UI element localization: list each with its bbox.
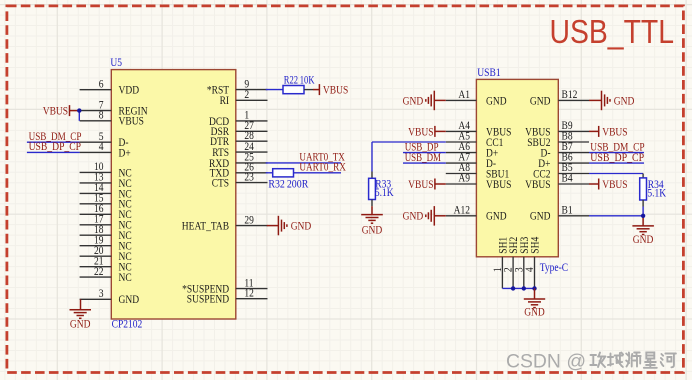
- svg-text:GND: GND: [614, 94, 635, 107]
- svg-text:VBUS: VBUS: [525, 178, 550, 191]
- svg-text:R22 10K: R22 10K: [284, 74, 315, 87]
- svg-text:VBUS: VBUS: [486, 178, 511, 191]
- svg-text:GND: GND: [291, 220, 312, 233]
- svg-text:GND: GND: [530, 210, 551, 223]
- svg-text:CTS: CTS: [212, 177, 229, 190]
- svg-text:6: 6: [99, 77, 104, 90]
- svg-text:SUSPEND: SUSPEND: [187, 293, 229, 306]
- svg-text:4: 4: [99, 140, 104, 153]
- svg-text:GND: GND: [486, 94, 507, 107]
- svg-text:USB_DP_CP: USB_DP_CP: [29, 140, 81, 153]
- svg-text:VBUS: VBUS: [323, 84, 348, 97]
- svg-text:12: 12: [244, 286, 254, 299]
- svg-text:VBUS: VBUS: [602, 178, 627, 191]
- svg-text:4: 4: [523, 267, 536, 272]
- svg-text:GND: GND: [486, 210, 507, 223]
- svg-text:GND: GND: [70, 317, 91, 330]
- svg-text:USB_TTL: USB_TTL: [550, 13, 675, 50]
- svg-text:GND: GND: [403, 210, 424, 223]
- svg-text:NC: NC: [119, 271, 132, 284]
- svg-text:A12: A12: [454, 203, 471, 216]
- svg-text:USB1: USB1: [477, 66, 500, 79]
- svg-text:8: 8: [99, 109, 104, 122]
- svg-text:GND: GND: [524, 306, 545, 319]
- svg-text:B12: B12: [562, 88, 578, 101]
- svg-text:U5: U5: [110, 56, 122, 69]
- svg-text:RI: RI: [220, 94, 230, 107]
- svg-text:SH4: SH4: [529, 237, 542, 254]
- svg-text:D+: D+: [119, 146, 131, 159]
- svg-text:5.1K: 5.1K: [375, 186, 394, 199]
- svg-text:GND: GND: [530, 94, 551, 107]
- svg-text:A1: A1: [458, 88, 470, 101]
- svg-text:GND: GND: [119, 293, 140, 306]
- svg-text:CP2102: CP2102: [112, 317, 143, 330]
- svg-text:GND: GND: [362, 224, 383, 237]
- svg-text:GND: GND: [633, 233, 654, 246]
- svg-text:HEAT_TAB: HEAT_TAB: [182, 220, 230, 233]
- svg-text:VBUS: VBUS: [408, 125, 433, 138]
- svg-text:5.1K: 5.1K: [647, 186, 666, 199]
- svg-text:VBUS: VBUS: [602, 125, 627, 138]
- svg-text:29: 29: [244, 213, 254, 226]
- svg-text:UART0_RX: UART0_RX: [299, 161, 346, 174]
- svg-text:2: 2: [244, 88, 249, 101]
- svg-text:USB_DP_CP: USB_DP_CP: [590, 151, 644, 164]
- svg-text:VBUS: VBUS: [408, 178, 433, 191]
- svg-text:A9: A9: [458, 172, 470, 185]
- svg-text:23: 23: [244, 170, 254, 183]
- svg-text:GND: GND: [403, 94, 424, 107]
- svg-text:CSDN @: CSDN @: [506, 350, 586, 372]
- svg-text:Type-C: Type-C: [540, 261, 569, 274]
- svg-text:B1: B1: [562, 203, 573, 216]
- svg-text:USB_DM: USB_DM: [405, 151, 441, 164]
- svg-text:B4: B4: [562, 172, 573, 185]
- svg-text:3: 3: [99, 287, 104, 300]
- svg-text:VBUS: VBUS: [43, 105, 68, 118]
- svg-text:VDD: VDD: [119, 84, 140, 97]
- svg-text:R32 200R: R32 200R: [268, 177, 308, 190]
- svg-text:VBUS: VBUS: [119, 115, 144, 128]
- svg-text:22: 22: [94, 265, 104, 278]
